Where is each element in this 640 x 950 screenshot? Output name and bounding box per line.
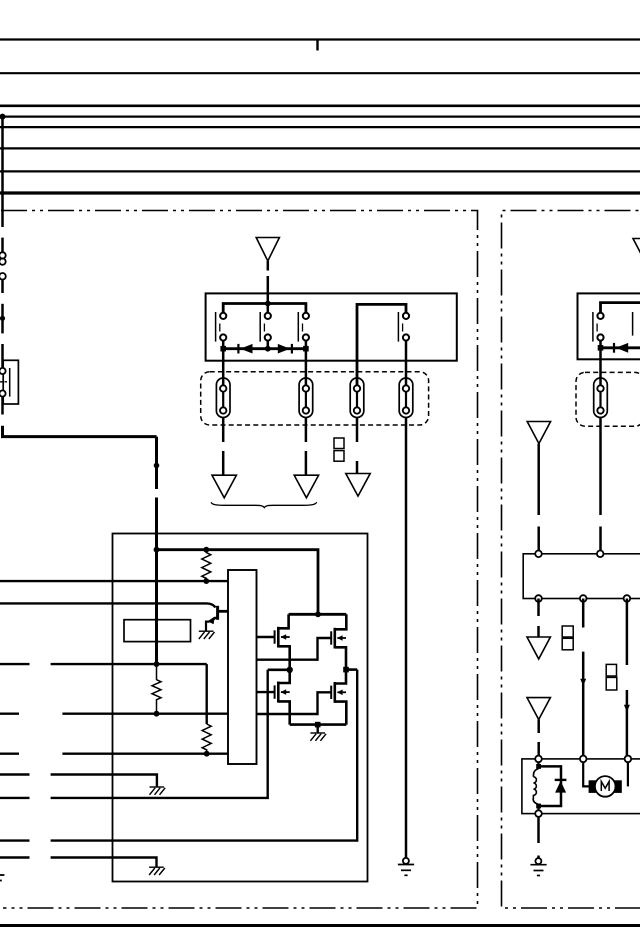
wire bus line 8 xyxy=(0,191,640,194)
wire SW2 pin to diode rail xyxy=(267,341,270,349)
junction square SW5 xyxy=(598,345,604,351)
mosfet Q4 xyxy=(275,670,290,725)
mosfet bridge supply rail xyxy=(289,613,347,616)
wire diode line right xyxy=(601,346,640,349)
wire input line y753 xyxy=(0,753,19,755)
page triangle T5 xyxy=(527,637,550,659)
transistor Q1 collector xyxy=(218,610,229,613)
wire W1 segment f xyxy=(1,397,4,415)
chassis ground y857 xyxy=(149,867,165,875)
wire relay to earth ground xyxy=(537,817,540,843)
code squares pair near G3 xyxy=(334,438,344,449)
wire bus inside relay xyxy=(223,304,306,313)
wire bus line 6 xyxy=(0,147,640,149)
mosfet Q3 gate wire xyxy=(257,638,331,660)
wire feed to SW4 xyxy=(357,304,406,385)
wire drop to contact 2 xyxy=(267,304,270,313)
wire W1 segment e xyxy=(1,344,4,368)
motor relay box U5 xyxy=(522,759,640,814)
junction dot W2 at y664 xyxy=(154,661,160,667)
switch contact SW6 bar (partial) xyxy=(632,312,634,336)
relay box U4 xyxy=(578,293,640,359)
wire stub on bus line 1 xyxy=(316,40,318,51)
connector oval 5 xyxy=(594,378,608,418)
wire coil to bottom pin xyxy=(537,805,539,814)
edge tick y875 xyxy=(0,874,4,876)
switch S1 box xyxy=(3,360,18,404)
wire branch down from y664 xyxy=(205,664,207,724)
flow arrow on wire pin2 xyxy=(580,679,586,686)
diode D4 loop wire xyxy=(539,766,562,806)
mosfet Q2 xyxy=(275,614,290,670)
connector oval 4 xyxy=(399,378,413,418)
chassis ground bridge xyxy=(310,733,326,741)
switch contact SW2 pins xyxy=(265,313,271,319)
motor brush right xyxy=(613,780,621,793)
wire W2 vertical segment a xyxy=(155,437,158,489)
junction dot R1 bottom xyxy=(203,578,209,584)
connector box CB2 xyxy=(523,554,640,599)
wire input line y797 xyxy=(0,797,30,799)
mosfet bridge bottom rail xyxy=(290,723,347,726)
switch contact SW1 linkage dash xyxy=(219,324,221,332)
switch contact SW3 bar xyxy=(297,312,299,342)
connector CB2 top pins xyxy=(535,551,542,558)
wire SW5 pin to diode line xyxy=(599,341,602,348)
wire W1 segment d xyxy=(1,304,4,334)
code squares pair LS3 xyxy=(606,664,616,676)
connector CB2 bottom pins xyxy=(535,595,542,602)
junction square coil bottom xyxy=(536,804,541,809)
wire W1 segment b xyxy=(1,238,4,252)
wire oval1 to ground G1 xyxy=(222,418,225,443)
wire W1 segment a xyxy=(1,117,4,227)
wire input line y581 xyxy=(0,580,228,582)
wire motor right lead xyxy=(627,762,629,786)
switch contact SW1 pins xyxy=(220,313,226,319)
wire input line y603 transistor base xyxy=(0,603,216,607)
connector oval 3 xyxy=(350,378,364,418)
mosfet Q4 gate wire xyxy=(257,691,275,693)
connector CONN1 dashed outline xyxy=(201,372,429,425)
diode D1 xyxy=(240,344,252,354)
ground triangle G2 xyxy=(294,475,318,498)
wire input line y774 to ground xyxy=(0,773,30,775)
wire feed segment b xyxy=(267,276,270,304)
junction dot supply at R1 xyxy=(203,547,209,553)
junction dot bridge supply xyxy=(315,611,321,617)
wire input line y664 xyxy=(0,663,30,665)
mosfet Q5 gate wire xyxy=(257,692,331,714)
wire T6 tail xyxy=(537,720,540,734)
wire bus line 1 xyxy=(0,38,640,40)
edge tick y880 xyxy=(0,880,2,882)
wire SW5 to connector oval 5 xyxy=(599,348,602,386)
earth ground E1 xyxy=(403,858,409,864)
wire bridge left branch xyxy=(268,668,290,671)
wire W2 vertical segment b xyxy=(155,498,158,665)
bottom frame line xyxy=(0,924,640,927)
code squares pair LS2 xyxy=(562,626,573,637)
chassis ground Q1 xyxy=(199,631,215,639)
earth ground E2 xyxy=(535,858,541,864)
wire bus line 2 xyxy=(0,72,640,74)
switch contact SW5 linkage dash xyxy=(596,324,598,332)
wire input line y857 to ground xyxy=(0,856,30,858)
wire input line y713 xyxy=(0,713,19,715)
wire feed triangle to relay xyxy=(267,261,270,271)
wire oval4 long drop xyxy=(405,418,408,858)
wire CB2 pin3 down xyxy=(626,599,629,666)
transistor Q1 emitter arrow xyxy=(208,616,215,624)
wire SW3 to connector oval 2 xyxy=(305,349,308,386)
junction dot on W1 xyxy=(0,316,5,321)
wire bridge ground stub xyxy=(317,725,319,733)
junction dot feed on bus xyxy=(265,301,271,307)
page triangle T6 xyxy=(527,698,550,720)
wire bus line 5 xyxy=(0,126,640,128)
connector pair circles on W1 xyxy=(0,252,6,258)
switch S1 linkage dash xyxy=(0,381,8,383)
diode D1 cathode bar xyxy=(237,344,239,354)
junction dot bridge left xyxy=(287,667,293,673)
switch contact SW4 linkage dash xyxy=(402,324,404,332)
transistor Q1 base bar xyxy=(216,606,219,620)
chassis ground y774 xyxy=(150,787,166,795)
junction square rail left xyxy=(220,346,226,352)
wire SW4 to connector oval 4 xyxy=(405,341,408,386)
switch contact SW2 bar xyxy=(259,312,261,342)
resistor R3 xyxy=(202,724,211,754)
motor brush left xyxy=(589,780,597,793)
resistor R2 xyxy=(152,664,161,714)
wire SW1 pin to diode rail xyxy=(222,341,225,349)
power feed triangle B+ right xyxy=(527,422,550,444)
diode D2 xyxy=(278,344,290,354)
wire bridge right branch xyxy=(346,668,357,671)
wire oval5 down xyxy=(599,418,602,516)
mosfet Q5 xyxy=(331,670,346,725)
connector oval 1 xyxy=(216,378,230,418)
ECU box outline xyxy=(113,534,368,882)
motor M1 xyxy=(595,776,616,797)
wire relay feed elbow xyxy=(601,303,640,313)
diode D2 cathode bar xyxy=(291,344,293,354)
switch S1 contact bar xyxy=(9,368,11,397)
junction square coil top xyxy=(536,764,541,769)
flow arrow on wire pin3 xyxy=(624,705,630,712)
switch contact SW3 pins xyxy=(303,313,309,319)
wire input line y840 xyxy=(0,839,30,841)
connector oval 2 xyxy=(299,378,313,418)
junction dot on W2 xyxy=(154,463,160,469)
wire triangle down xyxy=(537,444,540,515)
wire W1 segment c xyxy=(1,280,4,293)
motor box bottom pin xyxy=(535,810,542,817)
wire motor left lead xyxy=(583,762,589,786)
mosfet Q3 xyxy=(331,614,346,669)
resistor R1 xyxy=(202,550,211,581)
wire oval3 to ground G3 xyxy=(356,418,359,443)
wire W1 elbow to ECU xyxy=(3,426,157,437)
power feed triangle right (partial) xyxy=(633,239,640,261)
switch S1 pin circles xyxy=(0,368,6,374)
wire SW1 to connector oval 1 xyxy=(222,349,225,386)
component name box xyxy=(124,620,191,642)
wire oval2 to ground G2 xyxy=(305,418,308,443)
wire SW3 pin to diode rail xyxy=(305,341,308,349)
ground triangle G1 xyxy=(212,475,236,498)
switch contact SW4 pins xyxy=(403,313,409,319)
relay coil L1 xyxy=(533,769,538,777)
shield border right device box xyxy=(502,211,640,909)
connector circle on W1 xyxy=(0,273,6,280)
connector CONN2 dashed outline xyxy=(576,372,640,426)
power feed triangle B+ xyxy=(256,238,279,262)
diode D3 cathode bar xyxy=(613,343,615,353)
wire bus line 7 xyxy=(0,170,640,172)
switch contact SW1 bar xyxy=(215,312,217,342)
diode D4 xyxy=(555,781,566,793)
wire bus line 3 xyxy=(0,105,640,108)
wire CB2 pin2 down xyxy=(582,599,585,628)
junction dot y753 xyxy=(204,751,210,757)
mosfet Q2 gate wire xyxy=(257,636,275,638)
wire pin to coil xyxy=(537,762,539,769)
wire CB2 pin1 down xyxy=(537,599,540,617)
junction dot supply left xyxy=(154,547,160,553)
diode D3 xyxy=(616,343,628,353)
wire diode rail xyxy=(221,347,306,350)
relay box U1 xyxy=(206,293,457,360)
junction square rail right xyxy=(303,346,309,352)
motor box top pins xyxy=(535,756,542,763)
switch contact SW5 pins xyxy=(597,313,603,319)
junction square bridge bottom xyxy=(315,722,321,728)
transistor Q1 emitter xyxy=(211,617,218,621)
junction square bridge right xyxy=(343,667,349,673)
switch contact SW2 linkage dash xyxy=(263,324,265,332)
diode D4 cathode bar xyxy=(555,779,567,781)
junction dot bus line 4 to left wire xyxy=(0,114,6,120)
shield border left device box xyxy=(1,211,478,909)
wire Q1 emitter to ground xyxy=(206,622,210,631)
ground triangle G3 xyxy=(346,474,370,497)
wire bus line 4 xyxy=(0,115,640,117)
switch contact SW5 bar xyxy=(592,312,594,342)
switch contact SW3 linkage dash xyxy=(302,324,304,332)
wire supply rail top xyxy=(157,550,319,615)
IC box U3 xyxy=(228,570,257,764)
switch contact SW4 bar xyxy=(397,312,399,342)
junction dot rail center xyxy=(265,346,271,352)
junction dot y713 xyxy=(154,711,160,717)
ground group brace xyxy=(211,502,317,507)
